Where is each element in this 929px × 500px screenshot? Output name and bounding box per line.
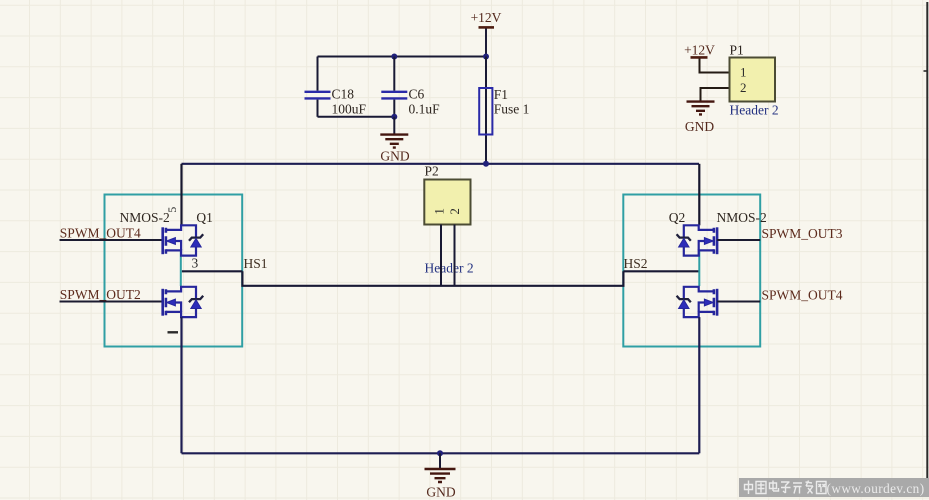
svg-text:GND: GND <box>685 119 714 134</box>
sheet symbol right half-bridge box <box>623 195 760 347</box>
transistor Q2 bottom NMOS <box>677 287 718 317</box>
node junction at +12V feed <box>483 54 489 60</box>
wire left source drop <box>180 317 182 453</box>
wire right source drop <box>698 317 700 453</box>
capacitor C18 <box>305 57 367 117</box>
svg-text:Q2: Q2 <box>669 210 686 225</box>
net wire SPWM_OUT2 left <box>60 287 163 302</box>
svg-text:Header 2: Header 2 <box>425 261 474 276</box>
svg-text:C18: C18 <box>332 87 355 102</box>
svg-text:Q1: Q1 <box>196 210 213 225</box>
svg-text:NMOS-2: NMOS-2 <box>120 210 170 225</box>
svg-text:HS2: HS2 <box>624 256 648 271</box>
connector P2 Header 2 <box>424 164 473 276</box>
ground GND (bottom) <box>425 453 456 499</box>
svg-text:(www.ourdev.cn): (www.ourdev.cn) <box>827 481 925 496</box>
svg-text:NMOS-2: NMOS-2 <box>717 210 767 225</box>
watermark band <box>739 478 929 497</box>
svg-text:F1: F1 <box>494 87 508 102</box>
sheet symbol left half-bridge box <box>105 195 243 347</box>
wire left drain drop <box>180 164 182 226</box>
sheet border <box>924 2 928 478</box>
svg-text:+12V: +12V <box>684 43 715 58</box>
svg-text:+12V: +12V <box>471 10 502 25</box>
svg-text:5: 5 <box>165 207 179 213</box>
svg-text:2: 2 <box>740 80 747 95</box>
svg-text:Fuse 1: Fuse 1 <box>494 102 530 117</box>
wire bottom rail <box>182 452 700 454</box>
wire HS1-HS2 bus <box>242 271 623 286</box>
wire HS2 stub <box>623 256 699 271</box>
fuse F1 <box>479 57 529 164</box>
svg-text:2: 2 <box>447 208 462 215</box>
connector P1 Header 2 <box>730 43 779 118</box>
wire top rail <box>182 163 700 165</box>
net wire SPWM_OUT4 right <box>717 287 843 302</box>
wire mid teal left <box>180 251 182 286</box>
svg-text:SPWM_OUT3: SPWM_OUT3 <box>762 226 843 241</box>
power port +12V (top) <box>471 10 502 57</box>
node junction at C6 top <box>391 54 397 60</box>
svg-text:SPWM_OUT4: SPWM_OUT4 <box>60 225 141 240</box>
net wire SPWM_OUT4 left <box>60 225 163 240</box>
svg-text:HS1: HS1 <box>244 256 268 271</box>
node junction at cap GND <box>391 114 397 120</box>
svg-text:GND: GND <box>426 485 455 500</box>
svg-text:0.1uF: 0.1uF <box>409 102 441 117</box>
wire mid teal right <box>698 251 700 286</box>
wire top rail of cap group <box>318 56 487 58</box>
svg-text:100uF: 100uF <box>332 102 367 117</box>
svg-text:1: 1 <box>740 65 747 80</box>
node junction fuse to rail <box>483 161 489 167</box>
net wire SPWM_OUT3 right <box>717 226 843 241</box>
transistor Q1 top NMOS <box>120 207 213 271</box>
wire cap bottoms <box>318 116 395 118</box>
transistor Q2 top NMOS <box>669 210 767 256</box>
svg-text:C6: C6 <box>409 87 425 102</box>
svg-text:Header 2: Header 2 <box>730 103 779 118</box>
svg-text:P1: P1 <box>730 43 744 58</box>
wire P2 pin1 <box>440 225 442 286</box>
svg-text:1: 1 <box>432 208 447 215</box>
wire right drain drop <box>698 164 700 226</box>
wire P2 pin2 <box>454 225 456 286</box>
capacitor C6 <box>381 57 440 117</box>
wire HS1 stub <box>182 256 268 271</box>
ground GND (caps) <box>380 117 410 164</box>
transistor Q1 bottom NMOS <box>163 287 204 333</box>
svg-text:SPWM_OUT4: SPWM_OUT4 <box>762 287 843 302</box>
svg-text:SPWM_OUT2: SPWM_OUT2 <box>60 287 141 302</box>
node junction bottom GND <box>437 450 443 456</box>
svg-text:3: 3 <box>192 256 199 271</box>
power port +12V (P1) <box>684 43 729 73</box>
svg-text:P2: P2 <box>425 164 439 179</box>
svg-text:GND: GND <box>380 149 409 164</box>
ground GND (P1) <box>685 88 730 134</box>
